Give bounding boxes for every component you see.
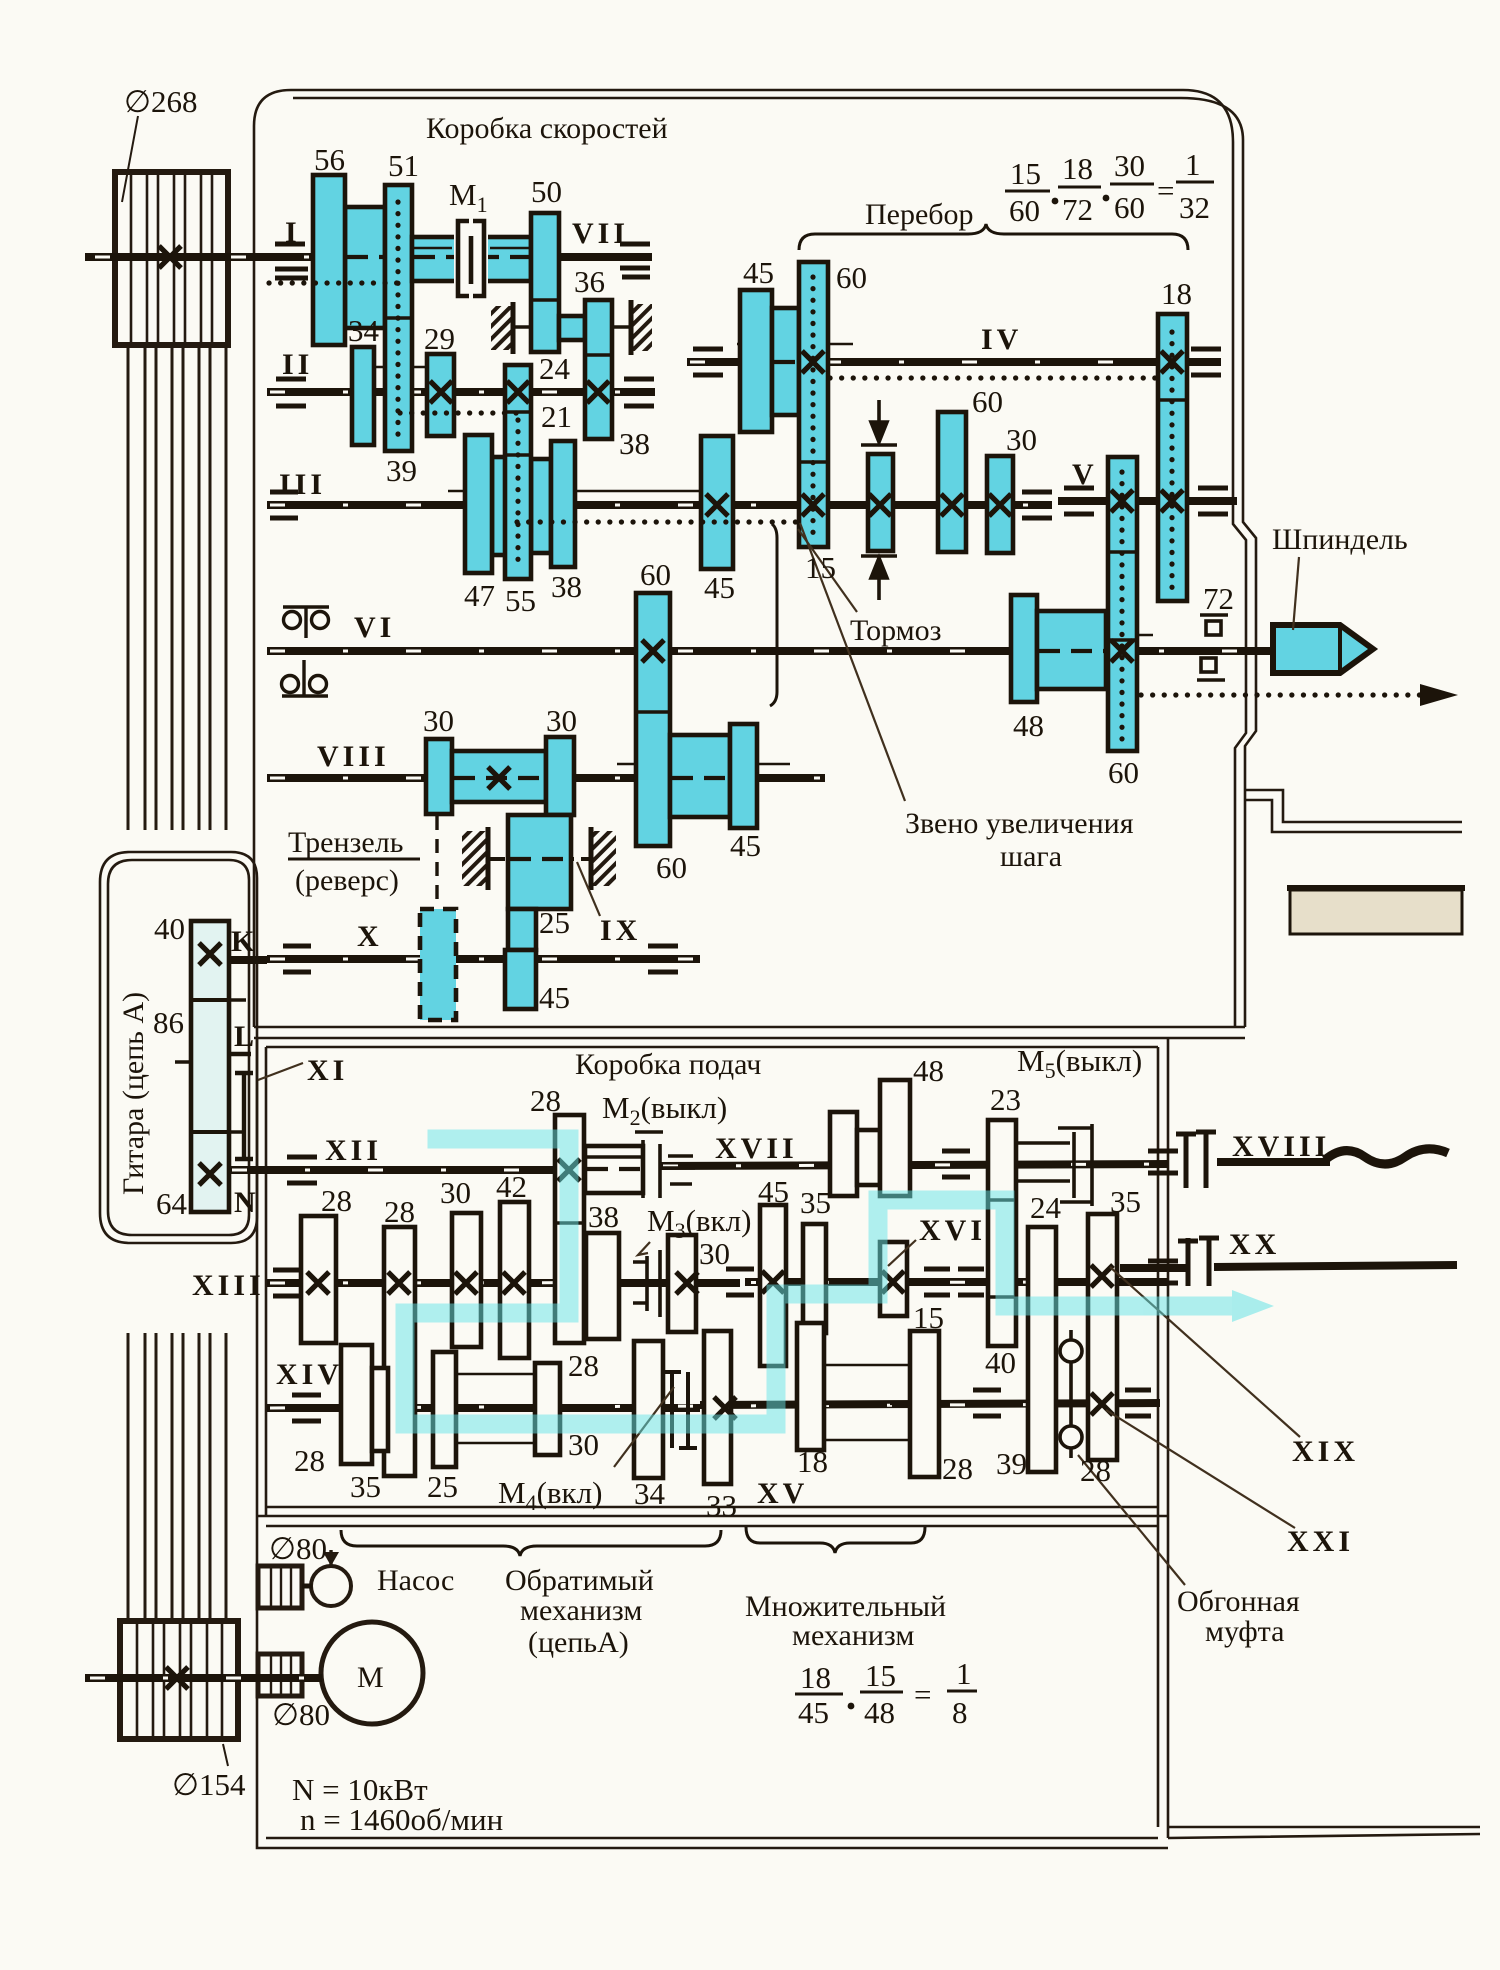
svg-text:45: 45 bbox=[730, 828, 761, 863]
svg-text:48: 48 bbox=[913, 1053, 944, 1088]
svg-text:механизм: механизм bbox=[520, 1594, 642, 1627]
svg-text:M2(выкл): M2(выкл) bbox=[602, 1090, 727, 1130]
svg-text:IV: IV bbox=[981, 323, 1022, 356]
svg-text:64: 64 bbox=[156, 1186, 188, 1221]
svg-text:45: 45 bbox=[758, 1174, 789, 1209]
svg-text:Обратимый: Обратимый bbox=[505, 1564, 654, 1597]
svg-text:=: = bbox=[1157, 173, 1174, 208]
svg-text:XVII: XVII bbox=[715, 1132, 798, 1165]
svg-text:XX: XX bbox=[1229, 1228, 1280, 1261]
svg-text:M4(вкл): M4(вкл) bbox=[498, 1475, 602, 1515]
svg-text:28: 28 bbox=[321, 1183, 352, 1218]
svg-text:45: 45 bbox=[539, 980, 570, 1015]
svg-text:VII: VII bbox=[572, 217, 629, 250]
svg-text:30: 30 bbox=[440, 1175, 471, 1210]
svg-text:38: 38 bbox=[619, 426, 650, 461]
svg-text:III: III bbox=[279, 468, 326, 501]
svg-text:L: L bbox=[234, 1020, 258, 1053]
svg-text:24: 24 bbox=[539, 351, 571, 386]
svg-text:механизм: механизм bbox=[792, 1619, 914, 1652]
svg-text:1: 1 bbox=[1185, 147, 1201, 182]
svg-text:Гитара (цепь А): Гитара (цепь А) bbox=[117, 992, 150, 1195]
svg-text:М: М bbox=[357, 1661, 384, 1694]
svg-text:15: 15 bbox=[913, 1300, 944, 1335]
svg-text:XIX: XIX bbox=[1292, 1435, 1359, 1468]
svg-text:VI: VI bbox=[354, 611, 395, 644]
svg-text:M5(выкл): M5(выкл) bbox=[1017, 1043, 1142, 1083]
svg-text:15: 15 bbox=[1010, 156, 1041, 191]
svg-text:I: I bbox=[285, 216, 301, 249]
svg-text:8: 8 bbox=[952, 1695, 968, 1730]
svg-text:XXI: XXI bbox=[1287, 1525, 1354, 1558]
svg-text:28: 28 bbox=[530, 1083, 561, 1118]
svg-text:∅80: ∅80 bbox=[269, 1531, 327, 1566]
svg-text:34: 34 bbox=[634, 1476, 666, 1511]
svg-text:30: 30 bbox=[1114, 148, 1145, 183]
svg-text:XII: XII bbox=[325, 1134, 382, 1167]
svg-text:15: 15 bbox=[865, 1658, 896, 1693]
svg-text:29: 29 bbox=[424, 321, 455, 356]
svg-text:60: 60 bbox=[640, 557, 671, 592]
svg-text:Тормоз: Тормоз bbox=[850, 614, 941, 647]
svg-text:23: 23 bbox=[990, 1082, 1021, 1117]
svg-text:15: 15 bbox=[805, 550, 836, 585]
svg-text:Коробка скоростей: Коробка скоростей bbox=[426, 112, 668, 145]
svg-text:72: 72 bbox=[1062, 192, 1093, 227]
svg-text:30: 30 bbox=[546, 703, 577, 738]
svg-text:∅268: ∅268 bbox=[124, 84, 198, 119]
svg-text:IX: IX bbox=[600, 914, 641, 947]
svg-text:шага: шага bbox=[1000, 840, 1062, 873]
svg-text:XIII: XIII bbox=[192, 1269, 265, 1302]
svg-text:Насос: Насос bbox=[377, 1564, 454, 1597]
svg-text:36: 36 bbox=[574, 264, 605, 299]
svg-text:56: 56 bbox=[314, 142, 345, 177]
svg-text:18: 18 bbox=[797, 1444, 828, 1479]
svg-text:V: V bbox=[1072, 458, 1098, 491]
svg-text:45: 45 bbox=[743, 255, 774, 290]
svg-text:34: 34 bbox=[348, 313, 380, 348]
svg-text:72: 72 bbox=[1203, 581, 1234, 616]
svg-text:28: 28 bbox=[1080, 1453, 1111, 1488]
svg-text:33: 33 bbox=[706, 1488, 737, 1523]
svg-text:30: 30 bbox=[1006, 422, 1037, 457]
svg-text:X: X bbox=[357, 920, 383, 953]
svg-text:30: 30 bbox=[699, 1236, 730, 1271]
svg-text:XVIII: XVIII bbox=[1232, 1130, 1330, 1163]
svg-text:45: 45 bbox=[704, 570, 735, 605]
svg-text:XVI: XVI bbox=[919, 1214, 986, 1247]
svg-text:XI: XI bbox=[307, 1054, 348, 1087]
svg-text:18: 18 bbox=[1161, 276, 1192, 311]
svg-text:Перебор: Перебор bbox=[865, 198, 974, 231]
svg-text:N: N bbox=[234, 1186, 260, 1219]
svg-text:VIII: VIII bbox=[317, 740, 390, 773]
svg-text:18: 18 bbox=[800, 1660, 831, 1695]
svg-text:50: 50 bbox=[531, 174, 562, 209]
svg-text:II: II bbox=[282, 348, 313, 381]
svg-text:60: 60 bbox=[836, 260, 867, 295]
svg-text:(цепьА): (цепьА) bbox=[528, 1626, 629, 1659]
svg-text:1: 1 bbox=[956, 1656, 972, 1691]
svg-text:35: 35 bbox=[800, 1185, 831, 1220]
svg-text:47: 47 bbox=[464, 578, 495, 613]
svg-text:60: 60 bbox=[1114, 190, 1145, 225]
svg-text:K: K bbox=[231, 925, 258, 958]
svg-text:=: = bbox=[914, 1677, 931, 1712]
svg-text:60: 60 bbox=[1108, 755, 1139, 790]
svg-text:28: 28 bbox=[294, 1443, 325, 1478]
svg-text:28: 28 bbox=[942, 1451, 973, 1486]
svg-text:24: 24 bbox=[1030, 1190, 1062, 1225]
svg-text:35: 35 bbox=[1110, 1184, 1141, 1219]
svg-text:28: 28 bbox=[384, 1194, 415, 1229]
svg-text:n = 1460об/мин: n = 1460об/мин bbox=[300, 1802, 503, 1837]
svg-text:25: 25 bbox=[427, 1469, 458, 1504]
svg-text:Коробка подач: Коробка подач bbox=[575, 1048, 761, 1081]
svg-text:25: 25 bbox=[539, 905, 570, 940]
svg-text:86: 86 bbox=[153, 1005, 184, 1040]
svg-text:28: 28 bbox=[568, 1348, 599, 1383]
svg-text:55: 55 bbox=[505, 583, 536, 618]
svg-text:35: 35 bbox=[350, 1469, 381, 1504]
svg-text:60: 60 bbox=[1009, 193, 1040, 228]
svg-text:Обгонная: Обгонная bbox=[1177, 1585, 1300, 1618]
svg-text:XV: XV bbox=[757, 1477, 808, 1510]
svg-text:Шпиндель: Шпиндель bbox=[1272, 523, 1408, 556]
svg-text:30: 30 bbox=[423, 703, 454, 738]
svg-text:39: 39 bbox=[386, 453, 417, 488]
svg-text:42: 42 bbox=[496, 1169, 527, 1204]
svg-text:48: 48 bbox=[1013, 708, 1044, 743]
svg-text:XIV: XIV bbox=[276, 1358, 343, 1391]
svg-text:48: 48 bbox=[864, 1695, 895, 1730]
svg-text:60: 60 bbox=[972, 384, 1003, 419]
svg-text:38: 38 bbox=[588, 1199, 619, 1234]
svg-text:Трензель: Трензель bbox=[288, 826, 403, 859]
svg-text:∅80: ∅80 bbox=[272, 1697, 330, 1732]
svg-text:21: 21 bbox=[541, 399, 572, 434]
svg-text:40: 40 bbox=[154, 911, 185, 946]
svg-text:38: 38 bbox=[551, 569, 582, 604]
svg-text:18: 18 bbox=[1062, 151, 1093, 186]
svg-text:51: 51 bbox=[388, 148, 419, 183]
svg-text:∅154: ∅154 bbox=[172, 1767, 246, 1802]
svg-text:Звено увеличения: Звено увеличения bbox=[905, 807, 1134, 840]
svg-text:45: 45 bbox=[798, 1695, 829, 1730]
svg-text:(реверс): (реверс) bbox=[295, 864, 399, 897]
svg-text:60: 60 bbox=[656, 850, 687, 885]
svg-text:39: 39 bbox=[996, 1446, 1027, 1481]
svg-text:муфта: муфта bbox=[1205, 1615, 1284, 1648]
svg-text:40: 40 bbox=[985, 1345, 1016, 1380]
svg-text:32: 32 bbox=[1179, 190, 1210, 225]
